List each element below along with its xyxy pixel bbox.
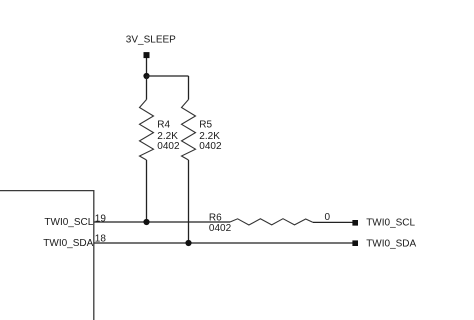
wire power stem	[146, 58, 148, 76]
label R5 value	[199, 120, 222, 152]
wire horizontal to R5 branch	[147, 75, 189, 77]
off-page square TWI0_SDA	[352, 240, 358, 246]
svg-text:3V_SLEEP: 3V_SLEEP	[126, 34, 176, 45]
svg-text:TWI0_SDA: TWI0_SDA	[366, 238, 416, 249]
wire R5 branch drop	[188, 76, 190, 100]
wire TWI0_SDA from pin to off-page	[94, 242, 353, 244]
label R4 value	[157, 120, 180, 152]
node junction R5 on SDA	[185, 240, 191, 246]
svg-text:19: 19	[95, 213, 107, 224]
svg-text:0402: 0402	[157, 141, 180, 152]
off-page square TWI0_SCL	[352, 220, 358, 226]
svg-text:TWI0_SDA: TWI0_SDA	[43, 238, 93, 249]
svg-text:R5: R5	[199, 120, 212, 131]
svg-text:0: 0	[325, 212, 331, 223]
wire R4 bottom lead	[146, 160, 148, 222]
svg-text:TWI0_SCL: TWI0_SCL	[366, 218, 415, 229]
svg-text:TWI0_SCL: TWI0_SCL	[44, 217, 93, 228]
label R6	[209, 213, 232, 234]
power symbol square 3V_SLEEP	[144, 52, 150, 58]
wire R5 bottom lead	[188, 160, 190, 243]
node junction R4 on SCL	[143, 219, 149, 225]
resistor R5	[182, 100, 196, 161]
wire R6 to off-page SCL	[313, 221, 353, 223]
svg-text:0402: 0402	[209, 223, 232, 234]
wire TWI0_SCL from pin to R6	[94, 221, 230, 223]
resistor R6	[230, 219, 313, 225]
node junction top	[143, 73, 149, 79]
svg-text:R4: R4	[157, 120, 170, 131]
IC box edge (component outline, partially off-page)	[0, 191, 94, 320]
svg-text:0402: 0402	[199, 141, 222, 152]
resistor R4	[140, 100, 154, 161]
wire R4 top lead	[146, 76, 148, 100]
